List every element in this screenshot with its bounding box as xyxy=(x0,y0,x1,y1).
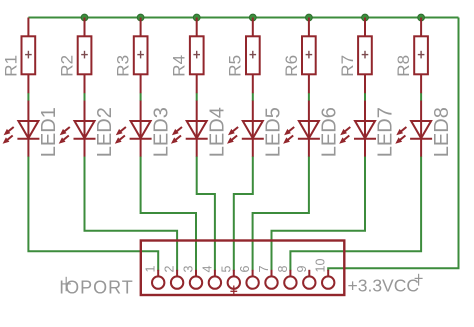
svg-text:5: 5 xyxy=(219,266,233,273)
svg-text:LED1: LED1 xyxy=(38,107,60,157)
svg-text:LED6: LED6 xyxy=(319,107,341,157)
svg-text:8: 8 xyxy=(276,266,290,273)
svg-text:3: 3 xyxy=(182,266,196,273)
svg-text:R2: R2 xyxy=(57,55,76,77)
svg-text:LED7: LED7 xyxy=(375,107,397,157)
svg-text:2: 2 xyxy=(163,266,177,273)
svg-text:LED2: LED2 xyxy=(94,107,116,157)
svg-text:R3: R3 xyxy=(114,55,133,77)
svg-text:9: 9 xyxy=(295,266,309,273)
svg-text:R4: R4 xyxy=(170,55,189,77)
svg-text:7: 7 xyxy=(257,266,271,273)
svg-text:LED3: LED3 xyxy=(150,107,172,157)
svg-text:10: 10 xyxy=(314,259,328,273)
svg-text:R5: R5 xyxy=(226,55,245,77)
svg-text:+3.3VCC: +3.3VCC xyxy=(348,276,420,296)
svg-text:4: 4 xyxy=(200,266,214,273)
svg-text:6: 6 xyxy=(238,266,252,273)
svg-text:IOPORT: IOPORT xyxy=(59,278,134,298)
svg-text:LED8: LED8 xyxy=(431,107,453,157)
svg-text:R6: R6 xyxy=(282,55,301,77)
svg-text:R1: R1 xyxy=(1,55,20,77)
svg-text:LED5: LED5 xyxy=(263,107,285,157)
svg-text:R8: R8 xyxy=(394,55,413,77)
svg-text:1: 1 xyxy=(144,266,158,273)
svg-text:R7: R7 xyxy=(338,55,357,77)
svg-text:LED4: LED4 xyxy=(206,107,228,157)
